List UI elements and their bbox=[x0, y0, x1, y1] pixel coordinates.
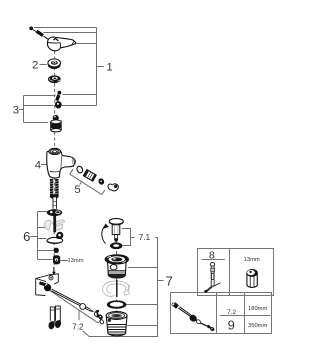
svg-text:350mm: 350mm bbox=[248, 323, 268, 329]
svg-text:8: 8 bbox=[209, 250, 215, 262]
svg-text:13mm: 13mm bbox=[244, 257, 260, 263]
svg-text:13mm: 13mm bbox=[67, 258, 83, 264]
svg-text:3: 3 bbox=[13, 105, 19, 117]
svg-text:1: 1 bbox=[106, 62, 112, 74]
svg-text:9: 9 bbox=[228, 317, 235, 332]
svg-text:7.2: 7.2 bbox=[72, 321, 84, 331]
svg-text:7.1: 7.1 bbox=[139, 232, 151, 242]
svg-text:5: 5 bbox=[75, 184, 81, 196]
svg-text:7.2: 7.2 bbox=[227, 309, 236, 316]
svg-text:2: 2 bbox=[32, 60, 38, 72]
svg-text:6: 6 bbox=[23, 229, 30, 244]
svg-text:180mm: 180mm bbox=[248, 306, 268, 312]
svg-text:4: 4 bbox=[35, 159, 41, 171]
svg-text:7: 7 bbox=[166, 273, 173, 288]
